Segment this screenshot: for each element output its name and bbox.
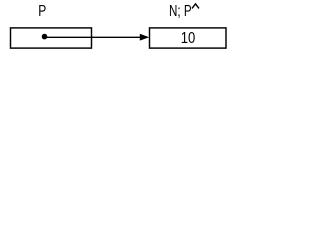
svg-text:P: P <box>38 3 46 20</box>
svg-text:10: 10 <box>181 30 196 47</box>
background <box>0 0 239 61</box>
wire: pointer arrow shaft <box>45 36 142 38</box>
pointer variable box P <box>11 28 92 48</box>
node box N <box>150 28 227 48</box>
caret ^ of P^ <box>192 4 199 8</box>
pointer origin dot <box>42 34 48 40</box>
arrowhead <box>140 34 149 41</box>
svg-text:N; P: N; P <box>169 3 192 20</box>
